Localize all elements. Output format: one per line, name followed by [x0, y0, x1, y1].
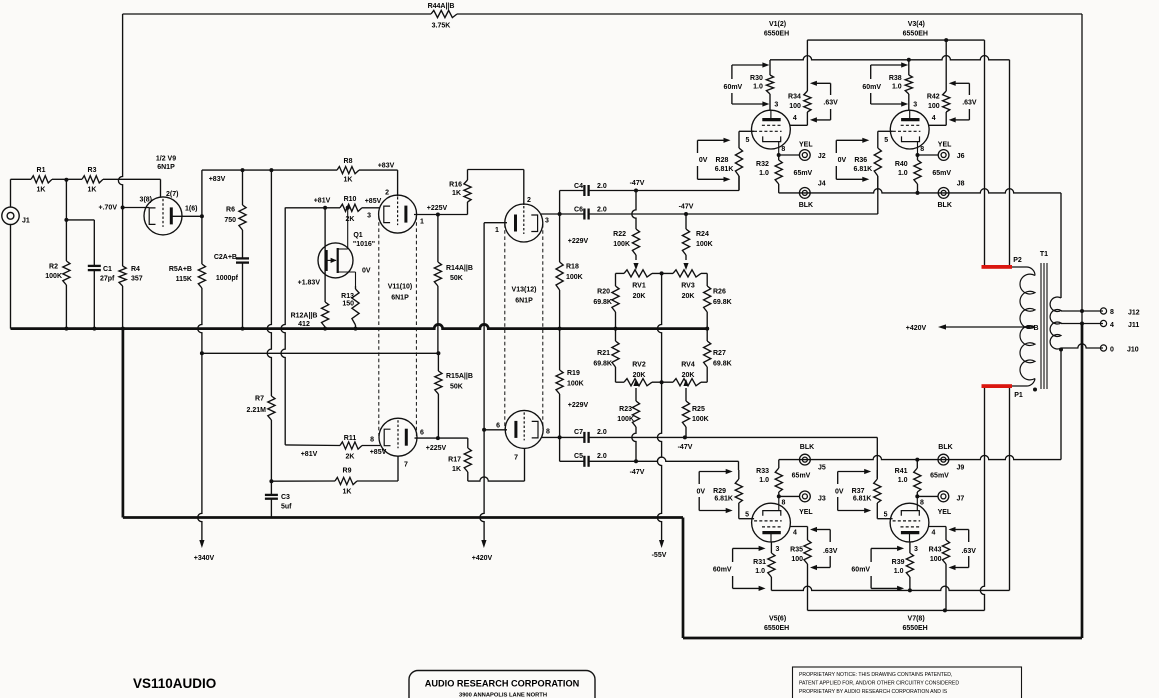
svg-text:RV2: RV2	[632, 362, 646, 369]
resistor R33	[756, 460, 782, 497]
svg-text:R26: R26	[713, 289, 726, 296]
svg-text:.63V: .63V	[962, 100, 977, 107]
wire: R17 feed	[438, 438, 468, 448]
svg-text:100: 100	[789, 103, 801, 110]
resistor R15A||B	[435, 353, 473, 394]
svg-text:65mV: 65mV	[794, 170, 813, 177]
capacitor C2A+B	[214, 254, 249, 329]
svg-text:4: 4	[1110, 322, 1114, 329]
wire: -55V center vertical	[657, 382, 661, 540]
wire: R8 to V11 grid	[359, 170, 398, 196]
svg-text:27pf: 27pf	[100, 276, 115, 283]
svg-text:R41: R41	[895, 468, 908, 475]
node +81V lower	[301, 451, 318, 458]
wire: R7 to R9 node	[270, 420, 272, 481]
pin 3 V13 upper	[545, 218, 549, 225]
resistor R25	[682, 388, 689, 437]
svg-text:1K: 1K	[344, 177, 353, 184]
svg-text:V3(4): V3(4)	[908, 21, 925, 28]
power -55V	[652, 540, 667, 559]
svg-text:YEL: YEL	[938, 509, 952, 516]
svg-text:65mV: 65mV	[930, 473, 949, 480]
svg-text:-55V: -55V	[652, 552, 667, 559]
svg-text:V7(8): V7(8)	[908, 616, 925, 623]
label R24	[696, 231, 713, 248]
wire: heavy +420V line	[123, 516, 683, 519]
capacitor C6	[560, 207, 686, 220]
svg-text:R8: R8	[344, 158, 353, 165]
svg-text:.63V: .63V	[823, 100, 838, 107]
svg-text:R39: R39	[892, 559, 905, 566]
svg-text:R6: R6	[226, 207, 235, 214]
label R28	[699, 157, 734, 173]
svg-text:69.8K: 69.8K	[713, 361, 732, 368]
node R40 bottom	[916, 191, 920, 195]
capacitor C3	[265, 494, 292, 518]
connector J10	[1100, 345, 1138, 354]
svg-text:P1: P1	[1014, 392, 1023, 399]
node rail dot R6	[241, 168, 245, 172]
pin 3 V1	[774, 102, 778, 109]
wire: R10 to V11 pin3	[362, 207, 380, 209]
resistor R27	[704, 329, 732, 383]
svg-text:100K: 100K	[617, 416, 634, 423]
label R23	[617, 406, 634, 423]
svg-text:2: 2	[385, 190, 389, 197]
svg-text:-47V: -47V	[630, 180, 645, 187]
wire: heavy right leg	[683, 518, 1082, 639]
svg-text:0V: 0V	[838, 157, 847, 164]
wire: C1 top jog	[66, 220, 94, 266]
meter 0V bracket V1	[698, 138, 731, 182]
svg-text:R30: R30	[750, 75, 763, 82]
svg-text:60mV: 60mV	[713, 567, 732, 574]
wire: +81V branch	[281, 208, 285, 445]
svg-text:2.0: 2.0	[597, 207, 607, 214]
svg-text:1000pf: 1000pf	[216, 275, 239, 282]
svg-text:BLK: BLK	[938, 444, 952, 451]
wire: plate rail top	[770, 56, 1010, 267]
pin 8 V1	[781, 146, 785, 153]
resistor R8	[337, 158, 359, 184]
svg-text:3: 3	[367, 213, 371, 220]
node +83V right	[378, 163, 395, 170]
svg-text:4: 4	[932, 115, 936, 122]
label R29	[696, 488, 733, 503]
wire: C5 left leg	[559, 437, 561, 461]
resistor R22	[632, 191, 640, 261]
svg-text:YEL: YEL	[799, 142, 813, 149]
svg-text:YEL: YEL	[799, 509, 813, 516]
wire: J1 to R1	[11, 179, 32, 207]
potentiometer RV2	[624, 362, 652, 386]
svg-text:R18: R18	[566, 264, 579, 271]
svg-text:5: 5	[745, 512, 749, 519]
svg-text:R37: R37	[852, 488, 865, 495]
wire: RV bottom line	[616, 381, 708, 383]
pin 4 V5	[793, 530, 797, 537]
svg-text:J1: J1	[22, 218, 30, 225]
wire: C6 line to R36 riser	[686, 176, 878, 214]
wire: top feedback line	[123, 13, 1082, 15]
label R37	[835, 488, 872, 503]
wire: V11 cathode lead	[357, 456, 398, 481]
node +1.83V	[298, 280, 321, 287]
tube V13(12) upper half	[505, 204, 543, 305]
svg-text:6N1P: 6N1P	[515, 298, 533, 305]
svg-text:100K: 100K	[45, 273, 62, 280]
resistor R36	[874, 148, 881, 191]
meter 60mV bracket V5	[713, 546, 766, 591]
svg-text:2.0: 2.0	[597, 183, 607, 190]
svg-text:+83V: +83V	[209, 176, 226, 183]
wire: V13 lower pin8 to C7 node	[542, 436, 560, 438]
connector J6 YEL	[918, 142, 965, 161]
wire: grid lead V1	[739, 131, 754, 148]
svg-text:8: 8	[920, 500, 924, 507]
node plate rail R39	[908, 588, 912, 592]
wire: R16 to V13 grid	[468, 170, 524, 206]
node R2-C1 tap	[64, 218, 68, 222]
svg-text:R35: R35	[790, 547, 803, 554]
wire: heavy left vertical	[122, 329, 125, 518]
svg-text:R9: R9	[343, 468, 352, 475]
transformer T1 label	[1040, 251, 1048, 258]
svg-text:3: 3	[776, 546, 780, 553]
node bus dots	[64, 327, 709, 331]
meter .63V bracket V3	[949, 81, 977, 123]
svg-text:2K: 2K	[346, 454, 355, 461]
label 65mV V7	[930, 473, 949, 480]
svg-text:6.81K: 6.81K	[854, 166, 873, 173]
svg-text:J6: J6	[957, 153, 965, 160]
svg-text:V1(2): V1(2)	[769, 21, 786, 28]
resistor R43	[929, 527, 950, 611]
svg-text:-47V: -47V	[678, 444, 693, 451]
wire: V13 cathode lead down	[524, 449, 526, 482]
svg-text:60mV: 60mV	[724, 84, 743, 91]
svg-text:J5: J5	[818, 465, 826, 472]
svg-text:R12A||B: R12A||B	[291, 313, 318, 320]
wire: C5 line to R29 riser	[636, 457, 739, 470]
svg-text:R21: R21	[597, 350, 610, 357]
wire: V13 plate left and down	[484, 223, 507, 430]
label R25	[692, 406, 709, 423]
resistor R20	[593, 273, 619, 328]
svg-text:RV4: RV4	[681, 362, 695, 369]
node rail B R38 tap	[907, 58, 911, 62]
svg-text:20K: 20K	[633, 293, 646, 300]
wire: R1 to node A	[52, 178, 66, 180]
svg-text:8: 8	[782, 500, 786, 507]
svg-text:357: 357	[131, 276, 143, 283]
wire: V11 lower plate to node	[415, 437, 438, 439]
node grid V9 junction	[121, 206, 125, 210]
wire: J4-J8 cathode line	[779, 189, 1061, 193]
svg-text:YEL: YEL	[938, 142, 952, 149]
potentiometer RV4	[673, 362, 701, 386]
node A	[64, 178, 68, 182]
tube V5 6550EH	[752, 497, 791, 632]
svg-text:R16: R16	[449, 182, 462, 189]
label 65mV V1	[794, 170, 813, 177]
wire: tap 0 line	[1061, 344, 1103, 348]
meter 60mV bracket V7	[851, 546, 904, 591]
wire: J5-J9 cathode line	[779, 455, 1061, 459]
svg-text:V5(6): V5(6)	[769, 616, 786, 623]
svg-text:R33: R33	[756, 468, 769, 475]
svg-text:3.75K: 3.75K	[432, 23, 451, 30]
wire: +420V riser	[480, 430, 484, 540]
svg-text:5: 5	[745, 137, 749, 144]
svg-text:0V: 0V	[699, 157, 708, 164]
svg-text:1K: 1K	[452, 466, 461, 473]
svg-text:R3: R3	[88, 167, 97, 174]
resistor R38	[889, 60, 913, 110]
node +225V lower	[426, 436, 447, 452]
svg-text:R10: R10	[344, 196, 357, 203]
resistor R16	[449, 170, 471, 215]
highlight P1 red bar	[982, 384, 1013, 388]
svg-text:R36: R36	[854, 157, 867, 164]
pin 3(8) V9	[140, 197, 152, 204]
wire: R5A+B to +340V line	[198, 288, 202, 353]
resistor R3	[66, 167, 103, 194]
svg-text:115K: 115K	[176, 276, 192, 283]
wire: V11 plate to +225V node	[414, 214, 438, 216]
svg-text:+229V: +229V	[568, 238, 589, 245]
svg-text:R29: R29	[713, 488, 726, 495]
wire: feedback left vertical	[118, 14, 122, 208]
svg-text:2.0: 2.0	[597, 429, 607, 436]
resistor R4	[119, 208, 143, 329]
svg-text:R20: R20	[597, 289, 610, 296]
connector J7 YEL	[917, 491, 964, 516]
meter 0V bracket V5	[699, 469, 733, 513]
svg-text:AUDIO RESEARCH CORPORATION: AUDIO RESEARCH CORPORATION	[425, 679, 580, 689]
svg-text:6: 6	[420, 430, 424, 437]
power +340V	[194, 540, 215, 562]
wire: screen rail top	[807, 40, 984, 267]
svg-text:6.81K: 6.81K	[714, 496, 733, 503]
wire: P1 lead	[985, 379, 1036, 387]
svg-text:2K: 2K	[346, 216, 355, 223]
svg-text:R14A||B: R14A||B	[446, 265, 473, 272]
svg-text:-47V: -47V	[679, 204, 694, 211]
wire: B to +420V arrow	[938, 324, 1035, 329]
resistor R9	[335, 468, 357, 496]
svg-text:60mV: 60mV	[862, 84, 881, 91]
svg-text:100K: 100K	[566, 274, 583, 281]
svg-text:RV1: RV1	[632, 283, 646, 290]
resistor R18	[556, 214, 583, 329]
svg-text:J12: J12	[1128, 310, 1140, 317]
node R14-R15 junction	[436, 351, 440, 355]
wire: R25 arrow to RV4	[683, 379, 688, 386]
svg-text:50K: 50K	[450, 384, 463, 391]
node B tap	[1026, 325, 1039, 332]
node +85V upper	[365, 198, 382, 205]
pin 3 V11 upper	[367, 213, 371, 220]
svg-text:+420V: +420V	[472, 555, 493, 562]
transformer T1 core	[1041, 263, 1047, 389]
node cathode V3	[916, 153, 920, 157]
svg-text:2.21M: 2.21M	[247, 407, 267, 414]
svg-text:R32: R32	[756, 161, 769, 168]
svg-text:PROPRIETARY BY AUDIO RESEARCH: PROPRIETARY BY AUDIO RESEARCH CORPORATIO…	[799, 689, 948, 695]
connector J8 BLK	[938, 181, 965, 210]
resistor R29	[735, 470, 742, 503]
titleblock AUDIO RESEARCH CORPORATION	[409, 671, 595, 698]
svg-text:R43: R43	[929, 547, 942, 554]
svg-text:100: 100	[791, 556, 803, 563]
connector J1	[2, 207, 30, 224]
tube V3 6550EH	[890, 21, 929, 155]
wire: y353 supply line	[202, 352, 439, 354]
svg-text:J7: J7	[957, 496, 965, 503]
highlight P2 red bar	[982, 265, 1013, 269]
tube V11 envelope dashed	[379, 216, 417, 436]
node cathode V7	[915, 494, 919, 498]
svg-text:1K: 1K	[37, 187, 46, 194]
node R5 lower junction	[200, 351, 204, 355]
svg-text:T1: T1	[1040, 251, 1048, 258]
svg-text:1.0: 1.0	[759, 477, 769, 484]
svg-text:100K: 100K	[613, 241, 630, 248]
svg-text:0V: 0V	[835, 489, 844, 496]
resistor R21	[593, 329, 619, 383]
node screen rail R43	[943, 608, 947, 612]
svg-text:20K: 20K	[633, 372, 646, 379]
meter 0V bracket V7	[838, 469, 872, 513]
resistor R42	[927, 40, 950, 125]
wire: pin6 line	[484, 429, 507, 431]
wire: R14 to y353	[437, 286, 439, 353]
pin 3 V3	[913, 102, 917, 109]
svg-text:+340V: +340V	[194, 555, 215, 562]
svg-text:1.0: 1.0	[898, 477, 908, 484]
resistor R41	[895, 460, 921, 497]
transistor Q1 1016	[318, 208, 375, 286]
capacitor C1	[88, 266, 115, 329]
svg-text:RV3: RV3	[681, 283, 695, 290]
svg-text:6N1P: 6N1P	[157, 164, 175, 171]
svg-text:100K: 100K	[692, 416, 709, 423]
wire: grid lead V3	[878, 131, 893, 148]
label 65mV V5	[792, 473, 811, 480]
svg-text:BLK: BLK	[800, 444, 814, 451]
svg-text:J8: J8	[957, 181, 965, 188]
svg-text:+225V: +225V	[427, 205, 448, 212]
node tap8 feedback	[1080, 309, 1084, 313]
svg-text:1: 1	[495, 227, 499, 234]
svg-text:4: 4	[793, 530, 797, 537]
svg-text:100: 100	[930, 556, 942, 563]
wire: +340V drop	[198, 353, 202, 540]
svg-text:.63V: .63V	[823, 548, 838, 555]
pin 3 V7	[914, 546, 918, 553]
resistor R13	[341, 286, 359, 329]
node C6 junction left	[558, 212, 562, 216]
svg-text:Q1: Q1	[353, 232, 362, 239]
svg-text:R11: R11	[344, 435, 357, 442]
svg-text:R22: R22	[613, 231, 626, 238]
node -47V C5	[630, 459, 645, 476]
transformer primary upper	[1020, 274, 1035, 328]
meter .63V bracket V5	[810, 527, 838, 570]
svg-text:50K: 50K	[450, 275, 463, 282]
svg-text:5uf: 5uf	[281, 504, 292, 511]
svg-text:2(7): 2(7)	[166, 191, 178, 198]
svg-text:+81V: +81V	[301, 451, 318, 458]
svg-text:C5: C5	[574, 453, 583, 460]
node +83V label left	[209, 176, 226, 183]
svg-text:7: 7	[514, 455, 518, 462]
wire: plate rail bottom	[771, 386, 1009, 590]
svg-text:J4: J4	[818, 181, 826, 188]
connector J4 BLK	[799, 181, 826, 210]
pin 1(6) V9	[185, 206, 197, 213]
svg-text:R42: R42	[927, 94, 940, 101]
wire: C4-C6 left vertical	[559, 191, 561, 215]
node cathode V5	[777, 494, 781, 498]
svg-text:1.0: 1.0	[753, 84, 763, 91]
pin 2 V13 upper	[527, 197, 531, 204]
wire: R7 branch upper	[267, 170, 271, 396]
svg-text:R38: R38	[889, 75, 902, 82]
svg-text:69.8K: 69.8K	[593, 299, 612, 306]
svg-text:6550EH: 6550EH	[903, 31, 928, 38]
capacitor C4	[560, 183, 636, 196]
svg-text:1.0: 1.0	[894, 568, 904, 575]
svg-text:3: 3	[914, 546, 918, 553]
svg-text:R31: R31	[753, 559, 766, 566]
connector J2 YEL	[779, 142, 826, 161]
power +420V at B	[906, 325, 927, 332]
svg-text:3900 ANNAPOLIS LANE NORTH: 3900 ANNAPOLIS LANE NORTH	[459, 693, 547, 698]
svg-text:R4: R4	[131, 266, 140, 273]
resistor R17	[448, 448, 471, 473]
node V9 plate junction	[200, 214, 204, 218]
wire: +83V rail riser	[201, 170, 203, 216]
capacitor C7	[560, 429, 685, 443]
node bus R13	[354, 327, 358, 331]
pin 8 V5	[782, 500, 786, 507]
wire: V9 cathode	[123, 207, 150, 209]
svg-text:VS110AUDIO: VS110AUDIO	[133, 676, 216, 691]
svg-text:V13(12): V13(12)	[512, 287, 537, 294]
node -47V C4	[630, 180, 645, 193]
svg-text:100K: 100K	[567, 381, 584, 388]
node +81V upper	[314, 198, 331, 210]
resistor R34	[788, 40, 811, 125]
svg-text:100: 100	[928, 103, 940, 110]
resistor R7	[247, 396, 275, 421]
pin 1 V11 upper	[420, 219, 424, 226]
svg-text:6N1P: 6N1P	[391, 295, 409, 302]
proprietary notice box	[793, 667, 1022, 698]
svg-text:1.0: 1.0	[755, 568, 765, 575]
resistor R39	[892, 542, 914, 590]
svg-text:BLK: BLK	[938, 202, 952, 209]
node C7 junction left	[558, 435, 562, 439]
svg-text:R24: R24	[696, 231, 709, 238]
svg-text:6: 6	[496, 423, 500, 430]
svg-text:150: 150	[342, 301, 354, 308]
wire: C3 leg	[270, 481, 272, 494]
svg-text:+420V: +420V	[906, 325, 927, 332]
resistor R10	[325, 196, 362, 223]
